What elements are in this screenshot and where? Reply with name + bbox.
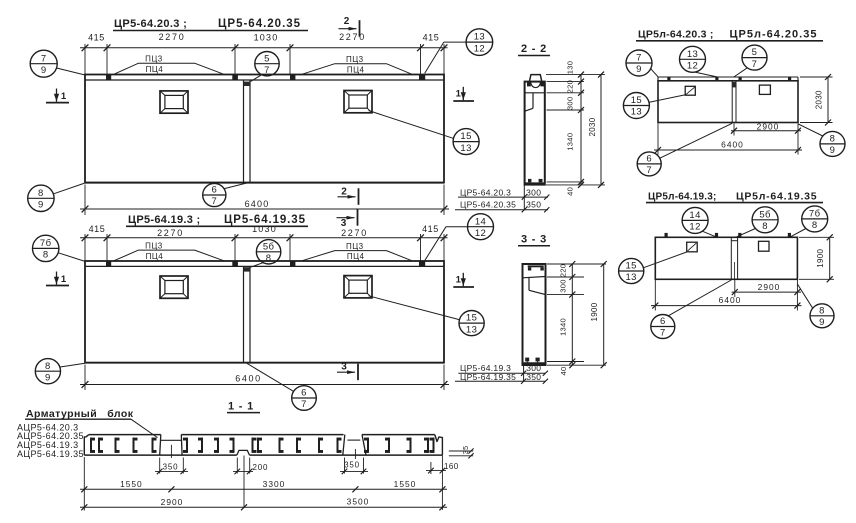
panel2 centre joint	[244, 263, 264, 363]
panel2 bottom dimension 6400	[80, 365, 449, 391]
svg-text:6: 6	[660, 316, 666, 327]
svg-text:ЦР5-64.20.35: ЦР5-64.20.35	[460, 200, 516, 210]
svg-text:ЦР5л-64.20.3 ;: ЦР5л-64.20.3 ;	[638, 28, 714, 40]
svg-text:ЦР5л-64.19.35: ЦР5л-64.19.35	[736, 190, 817, 202]
svg-text:ПЦ3: ПЦ3	[145, 55, 163, 64]
svg-text:160: 160	[444, 462, 459, 471]
panel3 dimension 6400	[654, 124, 802, 155]
svg-text:7: 7	[636, 53, 642, 64]
svg-text:2900: 2900	[757, 121, 780, 131]
balloon 6/7 panel4	[651, 280, 732, 339]
svg-text:7б: 7б	[809, 209, 821, 220]
svg-text:7б: 7б	[40, 238, 52, 249]
svg-text:15: 15	[466, 313, 477, 324]
balloon 15/13 panel2	[459, 311, 484, 336]
svg-text:130: 130	[566, 61, 575, 75]
section 1-1 title	[227, 400, 260, 412]
svg-text:ПЦ4: ПЦ4	[146, 252, 164, 261]
svg-text:5б: 5б	[759, 209, 771, 220]
svg-text:6400: 6400	[719, 295, 742, 305]
mesh trapezoid PC3/PC4 left panel2	[114, 242, 224, 261]
balloon 14/12 panel4	[682, 207, 716, 237]
svg-text:13: 13	[474, 32, 485, 43]
svg-text:1900: 1900	[590, 302, 599, 321]
svg-text:9: 9	[38, 200, 44, 211]
svg-text:350: 350	[526, 200, 541, 210]
svg-text:6400: 6400	[721, 139, 744, 149]
svg-text:7: 7	[301, 399, 307, 410]
bar dim row 2900/3500	[80, 497, 447, 511]
balloon 8/9 panel3	[798, 124, 845, 156]
svg-text:1: 1	[61, 274, 67, 285]
svg-text:6: 6	[301, 388, 307, 399]
svg-text:5: 5	[752, 47, 758, 58]
bar 1-1 outline	[84, 435, 442, 456]
panel2 body outline	[85, 261, 444, 363]
svg-text:35: 35	[461, 446, 470, 455]
table 3-3 row CR5-64.19.3 300	[458, 363, 545, 373]
armature block label	[25, 408, 158, 438]
panel3 centre joint	[732, 81, 736, 123]
panel4 dimension 6400	[651, 280, 802, 311]
balloon 15/13 panel1	[453, 129, 479, 155]
section 3-3 title	[518, 234, 550, 246]
svg-text:415: 415	[423, 33, 440, 43]
svg-text:АЦР5-64.19.35: АЦР5-64.19.35	[17, 449, 84, 459]
balloon 5/7 panel1	[255, 52, 279, 76]
section 3-3 body	[523, 264, 546, 365]
panel4 body outline	[655, 237, 797, 279]
dimension chain 415/2270/1030/2270/415 panel2	[80, 224, 448, 261]
svg-text:3: 3	[341, 362, 347, 373]
svg-text:2900: 2900	[758, 282, 781, 292]
balloon 6/7 panel1	[203, 183, 247, 207]
svg-text:2 - 2: 2 - 2	[521, 43, 547, 55]
section 2-2 body	[525, 75, 545, 185]
table 2-2 row CR5-64.20.35 350	[455, 186, 549, 213]
svg-text:2: 2	[341, 187, 347, 198]
table 2-2 row CR5-64.20.3 300	[458, 187, 548, 197]
panel1 centre joint	[244, 75, 263, 183]
section 3-3 dimension chain 220/300/1340/40	[547, 261, 606, 376]
svg-text:1 - 1: 1 - 1	[228, 400, 254, 412]
svg-text:ЦР5-64.19.35: ЦР5-64.19.35	[460, 372, 516, 382]
svg-text:13: 13	[460, 143, 471, 154]
section mark 2 bottom	[338, 187, 359, 205]
svg-text:6400: 6400	[235, 374, 261, 384]
section mark 3 bottom	[337, 362, 358, 381]
svg-text:ПЦ4: ПЦ4	[347, 65, 365, 74]
balloon 8/9 panel4	[797, 284, 834, 328]
panel4 vertical dimension 1900	[799, 234, 834, 282]
svg-text:2: 2	[344, 16, 350, 27]
svg-text:300: 300	[526, 187, 541, 197]
svg-text:1340: 1340	[558, 318, 567, 336]
svg-text:350: 350	[344, 461, 360, 470]
svg-text:2270: 2270	[159, 32, 186, 42]
svg-text:ПЦ3: ПЦ3	[346, 242, 364, 251]
section 2-2 overall dimension 2030	[588, 72, 604, 188]
svg-text:ПЦ3: ПЦ3	[346, 55, 364, 64]
panel2 opening left	[160, 276, 188, 298]
svg-text:13: 13	[631, 107, 642, 118]
panel3 body outline	[658, 81, 798, 123]
panel1 bottom dimension 6400	[80, 185, 449, 216]
svg-text:3300: 3300	[263, 479, 286, 489]
svg-text:1: 1	[456, 88, 462, 99]
svg-text:300: 300	[558, 279, 567, 293]
svg-text:5: 5	[264, 53, 270, 64]
bar dim 350 right	[340, 458, 368, 475]
svg-text:7: 7	[41, 53, 47, 64]
svg-text:13: 13	[466, 324, 477, 335]
panel2 top strip	[85, 261, 444, 266]
svg-text:6400: 6400	[245, 199, 270, 209]
svg-text:8: 8	[830, 134, 836, 145]
svg-text:9: 9	[636, 64, 642, 75]
svg-text:3500: 3500	[347, 497, 370, 507]
svg-text:220: 220	[558, 264, 567, 278]
balloon 7/9 panel3	[626, 50, 658, 77]
svg-text:9: 9	[45, 372, 51, 383]
balloon 13/12 panel3	[680, 46, 718, 77]
svg-text:Арматурный блок: Арматурный блок	[26, 408, 134, 420]
svg-text:1900: 1900	[816, 248, 825, 267]
balloon 15/13 panel4	[619, 252, 687, 284]
balloon 6/7 panel3	[637, 123, 732, 176]
svg-text:1550: 1550	[394, 479, 417, 489]
svg-text:ПЦ4: ПЦ4	[347, 252, 365, 261]
section 2-2 dimension chain 130/220/300/1340/40	[546, 61, 605, 196]
svg-text:300: 300	[566, 97, 575, 111]
section 3-3 overall dimension 1900	[590, 261, 607, 368]
svg-text:8: 8	[812, 220, 818, 231]
panel4 centre joint	[731, 237, 737, 279]
panel2 opening right	[344, 276, 372, 298]
svg-text:9: 9	[819, 317, 825, 328]
balloon 6/7 panel2	[247, 363, 316, 410]
bar dim 200 middle	[233, 456, 268, 508]
svg-text:ЦР5л-64.19.3;: ЦР5л-64.19.3;	[648, 191, 717, 202]
svg-text:200: 200	[253, 463, 269, 472]
svg-text:415: 415	[88, 33, 105, 43]
svg-text:1030: 1030	[254, 33, 279, 43]
balloon 5b/8 panel4	[736, 207, 778, 237]
svg-text:12: 12	[475, 228, 486, 239]
bar notch 2 (350)	[343, 435, 366, 459]
svg-text:2270: 2270	[157, 228, 184, 238]
svg-text:3 - 3: 3 - 3	[521, 234, 547, 246]
svg-text:415: 415	[422, 224, 439, 234]
svg-text:14: 14	[475, 216, 486, 227]
svg-text:15: 15	[631, 95, 642, 106]
svg-text:9: 9	[41, 65, 47, 76]
panel3 square plate right	[759, 85, 770, 94]
bar dim 35 thickness	[449, 446, 474, 459]
svg-text:12: 12	[474, 43, 485, 54]
leader opening right to balloon 15/13 panel2	[369, 296, 460, 320]
svg-text:7: 7	[752, 59, 758, 70]
svg-text:2030: 2030	[588, 117, 597, 136]
title panel CR5L-64.20.3	[636, 28, 823, 41]
svg-text:13: 13	[626, 272, 637, 283]
bar notch 1 (350)	[160, 435, 182, 458]
panel4 square plate left	[687, 242, 698, 252]
title panel CR5-64.20.3	[113, 18, 308, 31]
title panel CR5-64.19.3	[126, 214, 308, 227]
bar dim 160 right end	[426, 455, 459, 510]
svg-text:7: 7	[211, 196, 217, 207]
svg-text:ЦР5-64.19.3 ;: ЦР5-64.19.3 ;	[128, 214, 200, 226]
svg-text:220: 220	[566, 80, 575, 94]
svg-text:13: 13	[687, 49, 698, 60]
balloon 15/13 panel3	[623, 93, 686, 119]
svg-text:8: 8	[43, 250, 49, 261]
cut arrow 1 left panel1	[46, 89, 69, 103]
svg-text:12: 12	[689, 222, 700, 233]
svg-text:ЦР5-64.20.35: ЦР5-64.20.35	[218, 18, 301, 30]
svg-text:ЦР5-64.20.3 ;: ЦР5-64.20.3 ;	[114, 18, 187, 30]
svg-text:6: 6	[211, 185, 217, 196]
svg-text:1: 1	[61, 91, 67, 102]
bar dim 350 left	[155, 458, 188, 475]
leader opening right to balloon 15/13	[369, 111, 454, 139]
balloon 7b/8 panel2	[33, 235, 86, 261]
mesh trapezoid PC3/PC4 left panel1	[114, 55, 224, 74]
panel3 dimension 2900	[731, 121, 801, 135]
svg-text:1030: 1030	[252, 224, 277, 234]
dimension chain 415/2270/1030/2270/415 panel1	[80, 32, 448, 75]
svg-text:2900: 2900	[161, 497, 184, 507]
section mark 2 top	[339, 16, 360, 37]
svg-text:5б: 5б	[263, 241, 275, 252]
panel1 body outline	[85, 75, 444, 183]
balloon 8/9 panel1	[28, 183, 85, 212]
svg-text:7: 7	[660, 328, 666, 339]
svg-text:2030: 2030	[814, 90, 823, 109]
panel3 square plate left	[685, 86, 695, 95]
svg-text:ЦР5л-64.20.35: ЦР5л-64.20.35	[730, 28, 818, 40]
panel1 opening right	[344, 91, 372, 113]
mesh trapezoid PC3/PC4 right panel1	[302, 55, 412, 74]
cut arrow 1 right panel1	[453, 87, 474, 101]
svg-text:40: 40	[559, 366, 568, 375]
svg-text:15: 15	[460, 131, 471, 142]
table 3-3 row CR5-64.19.35 350	[455, 366, 548, 384]
section mark 3 top	[337, 209, 358, 229]
cut arrow 1 right panel2	[453, 273, 474, 287]
balloon 14/12 panel2	[425, 214, 494, 261]
balloon 13/12 panel1	[425, 29, 493, 73]
panel3 vertical dimension 2030	[800, 74, 833, 126]
svg-text:8: 8	[762, 221, 768, 232]
svg-text:14: 14	[689, 210, 700, 221]
svg-text:ПЦ3: ПЦ3	[145, 242, 163, 251]
svg-text:6: 6	[646, 154, 652, 165]
panel3 top strip	[658, 77, 798, 81]
svg-text:350: 350	[526, 372, 541, 382]
svg-text:9: 9	[830, 145, 836, 156]
balloon 5b/8 panel2	[256, 240, 280, 264]
bar channel marks	[90, 438, 435, 453]
panel4 square plate right	[759, 241, 770, 251]
bar dim row 1550/3300/1550	[80, 457, 447, 511]
cut arrow 1 left panel2	[46, 272, 69, 286]
svg-text:40: 40	[566, 187, 575, 196]
svg-text:8: 8	[266, 253, 272, 264]
balloon 7b/8 panel4	[790, 206, 828, 237]
svg-text:2270: 2270	[339, 32, 366, 42]
title panel CR5L-64.19.3	[646, 190, 823, 202]
svg-text:415: 415	[89, 224, 106, 234]
svg-text:8: 8	[45, 361, 51, 372]
svg-text:ПЦ4: ПЦ4	[146, 65, 164, 74]
svg-text:7: 7	[264, 65, 270, 76]
svg-text:8: 8	[38, 188, 44, 199]
section 2-2 title	[518, 43, 550, 56]
panel1 top strip	[85, 75, 444, 80]
svg-text:2270: 2270	[341, 228, 368, 238]
panel1 opening left	[160, 91, 188, 113]
svg-text:15: 15	[626, 261, 637, 272]
svg-text:1340: 1340	[566, 133, 575, 151]
panel4 top tabs	[665, 233, 792, 237]
svg-text:8: 8	[819, 305, 825, 316]
panel4 dimension 2900	[732, 280, 802, 297]
svg-text:12: 12	[687, 61, 698, 72]
svg-text:350: 350	[163, 463, 179, 472]
balloon 7/9 panel1	[30, 50, 85, 77]
mesh trapezoid PC3/PC4 right panel2	[302, 242, 412, 261]
balloon 8/9 panel2	[35, 359, 85, 384]
balloon 5/7 panel3	[734, 45, 767, 77]
bar bottom notch (200)	[237, 450, 250, 455]
svg-text:ЦР5-64.20.3: ЦР5-64.20.3	[460, 187, 511, 197]
svg-text:7: 7	[646, 165, 652, 176]
svg-text:1550: 1550	[120, 479, 143, 489]
svg-text:1: 1	[456, 274, 462, 285]
